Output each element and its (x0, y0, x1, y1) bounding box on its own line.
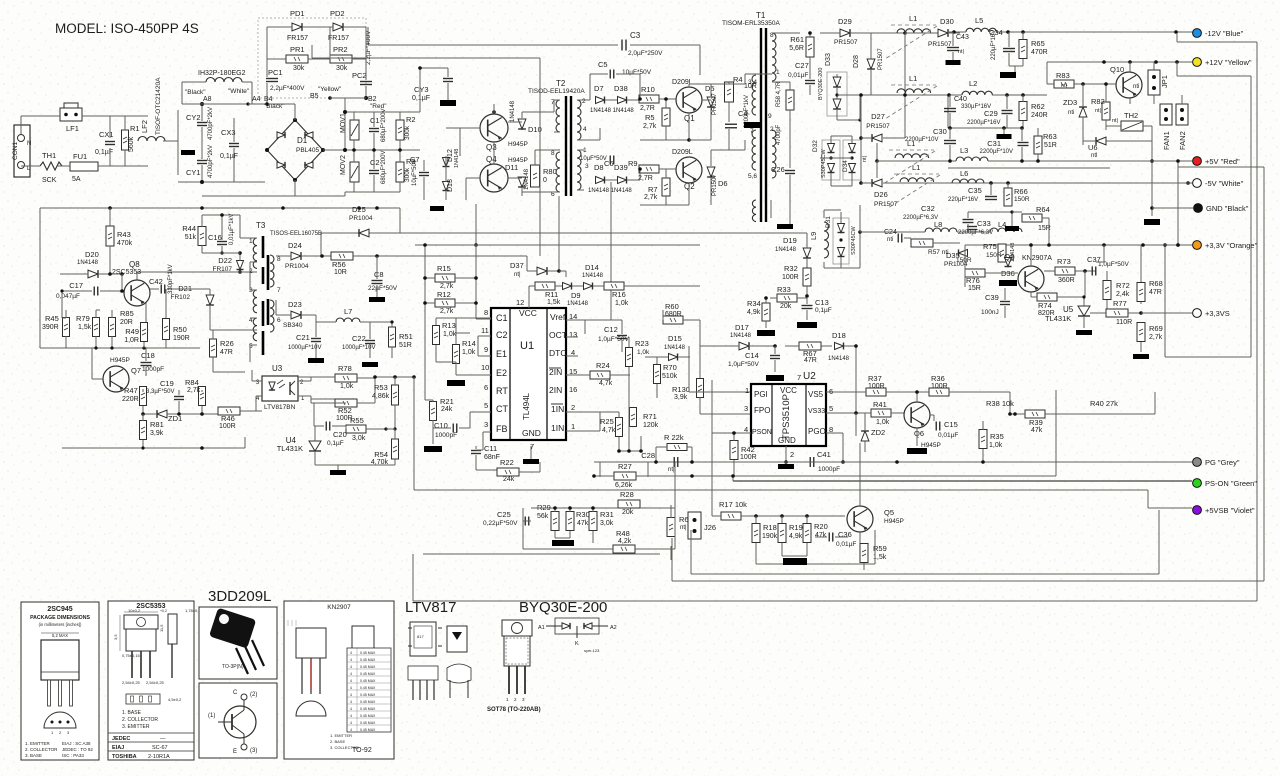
svg-text:2200µF*16V: 2200µF*16V (967, 120, 1000, 126)
svg-text:D12: D12 (447, 149, 454, 162)
svg-text:KN2907A: KN2907A (1022, 255, 1052, 262)
svg-text:R23: R23 (635, 339, 649, 348)
svg-text:VCC: VCC (519, 308, 537, 318)
svg-text:Vref: Vref (550, 312, 566, 322)
svg-text:2,4k: 2,4k (1116, 291, 1130, 298)
svg-text:L2: L2 (969, 79, 977, 88)
svg-text:R22: R22 (500, 458, 514, 467)
svg-text:nt|: nt| (668, 467, 675, 473)
svg-text:EIAJ : SC A38: EIAJ : SC A38 (62, 741, 91, 746)
svg-text:SCK: SCK (42, 177, 57, 184)
svg-text:0,1µF: 0,1µF (220, 153, 238, 160)
svg-text:ntl: ntl (1091, 153, 1097, 159)
svg-text:E1: E1 (496, 349, 507, 359)
svg-text:2,7R: 2,7R (640, 105, 655, 112)
svg-text:D1: D1 (297, 136, 308, 145)
svg-text:L8: L8 (934, 220, 942, 229)
svg-text:680µF*200V: 680µF*200V (381, 151, 387, 184)
svg-text:510k: 510k (662, 373, 678, 380)
svg-text:7: 7 (750, 128, 754, 135)
svg-text:PC1: PC1 (268, 68, 283, 77)
svg-text:H945P: H945P (508, 141, 528, 148)
svg-text:JEDEC: JEDEC (112, 736, 130, 742)
svg-text:220µF*16V: 220µF*16V (948, 197, 978, 203)
svg-text:47k: 47k (815, 532, 827, 539)
svg-text:150R: 150R (1014, 196, 1030, 203)
svg-text:0.45 MAX: 0.45 MAX (360, 700, 376, 704)
svg-text:C8: C8 (374, 270, 384, 279)
svg-text:+3,3VS: +3,3VS (1205, 309, 1230, 318)
svg-text:R60: R60 (665, 302, 679, 311)
svg-text:H945P: H945P (921, 442, 941, 449)
svg-text:0,01µF*1kV: 0,01µF*1kV (229, 214, 235, 245)
svg-text:1N4148: 1N4148 (582, 273, 604, 279)
svg-text:A4: A4 (252, 96, 261, 103)
svg-text:Q5: Q5 (884, 508, 894, 517)
svg-text:R14: R14 (462, 339, 476, 348)
svg-text:D11: D11 (505, 163, 518, 172)
svg-text:sym-123: sym-123 (584, 648, 600, 653)
svg-text:2,7k: 2,7k (440, 308, 454, 315)
svg-text:SB340: SB340 (283, 322, 303, 329)
svg-text:R1: R1 (130, 124, 140, 133)
svg-text:22µF*50V: 22µF*50V (368, 285, 398, 292)
svg-text:2SC945: 2SC945 (47, 606, 72, 613)
svg-text:13: 13 (569, 330, 577, 339)
svg-text:R73: R73 (1057, 257, 1071, 266)
svg-text:100R: 100R (740, 454, 757, 461)
svg-text:—: — (160, 736, 166, 742)
svg-text:3: 3 (744, 404, 748, 413)
svg-text:10R: 10R (334, 269, 347, 276)
svg-text:R26: R26 (220, 339, 234, 348)
svg-text:B4: B4 (264, 96, 273, 103)
svg-text:1: 1 (776, 69, 780, 76)
svg-text:0.45 MAX: 0.45 MAX (360, 672, 376, 676)
svg-text:360R: 360R (1058, 277, 1075, 284)
svg-text:R79: R79 (76, 314, 90, 323)
svg-text:R43: R43 (117, 230, 131, 239)
svg-text:SC-67: SC-67 (152, 745, 168, 751)
svg-text:+3,3V "Orange": +3,3V "Orange" (1205, 241, 1258, 250)
svg-text:nt|: nt| (514, 272, 521, 278)
svg-text:1. EMITTER: 1. EMITTER (25, 741, 51, 746)
svg-text:H945P: H945P (884, 518, 904, 525)
svg-text:PC2: PC2 (352, 71, 367, 80)
svg-text:"Black": "Black" (185, 89, 206, 96)
svg-text:VCC: VCC (780, 386, 797, 395)
svg-text:6: 6 (484, 383, 488, 392)
svg-text:C3: C3 (630, 31, 641, 40)
svg-text:RT: RT (496, 386, 508, 396)
svg-text:C22: C22 (352, 334, 366, 343)
svg-text:11,5: 11,5 (159, 624, 164, 632)
svg-text:R 22k: R 22k (664, 433, 684, 442)
svg-text:100R: 100R (931, 383, 948, 390)
svg-text:R46: R46 (221, 414, 235, 423)
svg-text:4700pF*2kV: 4700pF*2kV (208, 145, 214, 178)
svg-text:0,047µF: 0,047µF (56, 293, 80, 300)
svg-text:"Yellow": "Yellow" (318, 86, 342, 93)
svg-text:190R: 190R (173, 335, 190, 342)
svg-text:68nF: 68nF (484, 454, 500, 461)
svg-text:3,9k: 3,9k (674, 394, 688, 401)
svg-text:R7: R7 (648, 185, 658, 194)
svg-text:2: 2 (582, 98, 586, 105)
svg-text:4,9k: 4,9k (747, 309, 761, 316)
svg-text:R66: R66 (1014, 187, 1028, 196)
svg-text:R30: R30 (576, 510, 590, 519)
svg-text:190k: 190k (762, 533, 778, 540)
svg-text:R17 10k: R17 10k (719, 500, 747, 509)
svg-text:51R: 51R (1044, 142, 1057, 149)
svg-text:1000pF: 1000pF (435, 432, 457, 439)
svg-text:D26: D26 (874, 190, 888, 199)
svg-text:15R: 15R (968, 285, 981, 292)
svg-text:Q1: Q1 (684, 114, 695, 123)
svg-text:R85: R85 (120, 309, 134, 318)
svg-text:1N4148: 1N4148 (454, 149, 460, 168)
svg-text:R82: R82 (1091, 97, 1105, 106)
svg-text:R83: R83 (1056, 71, 1070, 80)
svg-text:R20: R20 (814, 522, 828, 531)
svg-text:1000pF: 1000pF (142, 366, 164, 373)
svg-text:R42: R42 (741, 445, 755, 454)
svg-text:0: 0 (543, 177, 547, 184)
svg-text:1: 1 (249, 238, 253, 245)
svg-text:R37: R37 (868, 374, 882, 383)
svg-text:R69: R69 (1149, 324, 1163, 333)
svg-text:L7: L7 (344, 307, 352, 316)
svg-text:0,01µF: 0,01µF (836, 541, 856, 548)
svg-text:Q6: Q6 (914, 429, 924, 438)
svg-text:4,5±0,2: 4,5±0,2 (168, 697, 182, 702)
svg-text:D29: D29 (838, 17, 852, 26)
svg-text:7: 7 (277, 287, 281, 294)
svg-text:110R: 110R (1116, 319, 1132, 326)
svg-text:100R: 100R (868, 383, 885, 390)
svg-text:+0,2: +0,2 (160, 609, 167, 613)
svg-text:4,7k: 4,7k (599, 380, 613, 387)
svg-text:GND "Black": GND "Black" (1206, 204, 1249, 213)
svg-text:560k: 560k (128, 136, 135, 152)
svg-text:Q9: Q9 (1004, 253, 1015, 262)
svg-text:1,0µF*50V: 1,0µF*50V (598, 336, 630, 343)
svg-text:220R: 220R (122, 396, 139, 403)
svg-text:R18: R18 (763, 523, 777, 532)
svg-text:H945P: H945P (110, 357, 130, 364)
svg-text:0,1µF: 0,1µF (815, 307, 832, 314)
svg-text:4,2k: 4,2k (618, 538, 632, 545)
svg-text:C28: C28 (641, 451, 655, 460)
svg-text:R70: R70 (663, 363, 677, 372)
svg-text:E: E (233, 749, 237, 755)
svg-text:R63: R63 (1043, 132, 1057, 141)
svg-text:DTC: DTC (549, 348, 566, 358)
svg-text:30k: 30k (293, 65, 305, 72)
svg-text:D25: D25 (352, 205, 366, 214)
svg-text:C17: C17 (69, 281, 83, 290)
svg-text:J26: J26 (704, 523, 716, 532)
svg-text:0.45 MAX: 0.45 MAX (360, 693, 376, 697)
svg-text:0,01µF: 0,01µF (788, 72, 808, 79)
svg-text:B5: B5 (310, 93, 319, 100)
svg-text:R11: R11 (545, 290, 558, 299)
svg-text:D15: D15 (668, 334, 682, 343)
svg-text:FR157: FR157 (328, 35, 349, 42)
svg-text:C27: C27 (795, 61, 809, 70)
svg-text:30k: 30k (336, 65, 348, 72)
svg-text:R44: R44 (182, 224, 196, 233)
svg-text:D19: D19 (783, 236, 797, 245)
svg-text:1,0k: 1,0k (462, 349, 476, 356)
svg-text:1,0k: 1,0k (615, 300, 629, 307)
svg-text:R64: R64 (1036, 205, 1050, 214)
svg-text:8: 8 (484, 308, 488, 317)
svg-text:Q10: Q10 (1110, 65, 1124, 74)
svg-text:D31: D31 (825, 216, 832, 228)
svg-text:C26: C26 (771, 165, 785, 174)
svg-text:PSON: PSON (752, 429, 772, 436)
svg-text:U6: U6 (1088, 143, 1098, 152)
svg-text:R72: R72 (1116, 281, 1130, 290)
svg-text:S30P45CW: S30P45CW (851, 225, 857, 255)
svg-text:-5V "White": -5V "White" (1205, 179, 1244, 188)
svg-text:1N4148: 1N4148 (77, 260, 99, 266)
svg-text:L1: L1 (912, 163, 920, 172)
svg-text:390R: 390R (42, 324, 59, 331)
svg-text:6,26k: 6,26k (615, 482, 633, 489)
svg-text:KN2907: KN2907 (327, 604, 351, 611)
svg-text:JP1: JP1 (1160, 75, 1169, 88)
svg-text:L5: L5 (975, 16, 983, 25)
svg-text:R56: R56 (332, 260, 346, 269)
svg-text:R51: R51 (399, 332, 413, 341)
svg-text:C15: C15 (944, 420, 958, 429)
svg-text:TH1: TH1 (42, 151, 56, 160)
svg-text:3,0k: 3,0k (600, 520, 614, 527)
svg-text:0,75±0,15: 0,75±0,15 (122, 653, 141, 658)
svg-text:5: 5 (484, 401, 488, 410)
svg-text:PR1507: PR1507 (712, 93, 718, 115)
svg-text:TL494L: TL494L (522, 392, 531, 420)
svg-text:2IN: 2IN (549, 367, 562, 377)
svg-text:2,7k: 2,7k (643, 123, 657, 130)
svg-text:L6: L6 (960, 169, 968, 178)
svg-text:D18: D18 (832, 331, 846, 340)
svg-text:TISOS-EEL16075B: TISOS-EEL16075B (270, 231, 322, 237)
svg-text:A8: A8 (203, 96, 212, 103)
svg-text:C19: C19 (160, 379, 174, 388)
svg-text:PR2: PR2 (333, 45, 348, 54)
svg-text:10µF*50V: 10µF*50V (580, 156, 607, 162)
svg-text:24k: 24k (503, 476, 515, 483)
svg-text:5A: 5A (72, 176, 81, 183)
svg-text:JEDEC : TO 92: JEDEC : TO 92 (62, 747, 93, 752)
svg-text:C39: C39 (985, 293, 999, 302)
svg-text:47R: 47R (220, 349, 233, 356)
svg-text:R32: R32 (784, 264, 798, 273)
svg-text:100nJ: 100nJ (981, 309, 999, 316)
svg-text:R41: R41 (873, 400, 887, 409)
svg-text:R80: R80 (543, 167, 557, 176)
svg-text:(in millimeters [inches]): (in millimeters [inches]) (39, 622, 82, 627)
svg-text:D23: D23 (288, 300, 302, 309)
svg-text:150R: 150R (986, 252, 1002, 259)
svg-text:R55: R55 (350, 416, 364, 425)
svg-text:1N4148: 1N4148 (730, 333, 752, 339)
svg-text:R35: R35 (990, 432, 1004, 441)
svg-text:C1: C1 (496, 313, 508, 323)
svg-text:10µF*50V: 10µF*50V (412, 159, 418, 186)
svg-text:4: 4 (350, 700, 352, 704)
svg-text:L3: L3 (960, 146, 968, 155)
svg-text:LTV817: LTV817 (405, 599, 456, 616)
svg-text:C2: C2 (370, 158, 380, 167)
svg-text:CY1: CY1 (186, 168, 201, 177)
svg-text:1N4148: 1N4148 (524, 168, 530, 190)
svg-text:PR1507: PR1507 (712, 174, 718, 196)
svg-text:R25: R25 (600, 417, 614, 426)
svg-text:PR1004: PR1004 (285, 263, 309, 270)
svg-text:5,2 MAX: 5,2 MAX (52, 633, 68, 638)
svg-text:PBL405: PBL405 (296, 147, 320, 154)
svg-text:Q4: Q4 (486, 155, 497, 164)
svg-text:T3: T3 (256, 221, 266, 230)
svg-text:5: 5 (829, 404, 833, 413)
svg-text:7: 7 (797, 373, 801, 382)
svg-text:330pF*1kV: 330pF*1kV (168, 264, 174, 294)
svg-text:R4: R4 (733, 75, 743, 84)
svg-text:C2: C2 (496, 330, 508, 340)
svg-text:C31: C31 (987, 139, 1001, 148)
svg-text:3,0k: 3,0k (352, 435, 366, 442)
svg-text:C16: C16 (208, 233, 222, 242)
svg-text:0.45 MAX: 0.45 MAX (360, 728, 376, 732)
svg-text:TO-92: TO-92 (352, 747, 372, 754)
svg-text:(3): (3) (250, 748, 257, 754)
svg-text:R58 4,7R: R58 4,7R (776, 81, 782, 107)
svg-text:R76: R76 (966, 276, 980, 285)
svg-text:CT: CT (496, 404, 508, 414)
svg-text:FU1: FU1 (73, 152, 87, 161)
svg-text:PGI: PGI (754, 390, 768, 399)
svg-text:U1: U1 (520, 340, 534, 352)
svg-text:C41: C41 (817, 450, 831, 459)
svg-text:6: 6 (277, 317, 281, 324)
svg-text:L1: L1 (909, 14, 917, 23)
svg-text:ZD2: ZD2 (871, 428, 885, 437)
svg-text:+5V "Red": +5V "Red" (1205, 157, 1240, 166)
svg-text:4,7k: 4,7k (602, 427, 616, 434)
svg-text:PACKAGE DIMENSIONS: PACKAGE DIMENSIONS (30, 615, 90, 621)
svg-text:3,3µF*50V: 3,3µF*50V (146, 389, 174, 395)
svg-text:680R: 680R (665, 311, 682, 318)
svg-text:FAN1: FAN1 (1162, 131, 1171, 150)
svg-text:D33: D33 (825, 53, 832, 66)
svg-text:3,9k: 3,9k (150, 430, 164, 437)
svg-text:300k: 300k (404, 167, 411, 182)
svg-text:C30: C30 (933, 127, 947, 136)
svg-text:4: 4 (350, 707, 352, 711)
svg-text:3,5: 3,5 (113, 634, 118, 640)
svg-text:9: 9 (768, 113, 772, 120)
svg-text:2IN: 2IN (549, 385, 562, 395)
svg-text:R50: R50 (173, 325, 187, 334)
svg-text:LTV817BN: LTV817BN (264, 404, 296, 411)
svg-text:ISC : PA33: ISC : PA33 (62, 753, 84, 758)
svg-text:2,7k: 2,7k (1149, 334, 1163, 341)
svg-text:20k: 20k (622, 509, 634, 516)
svg-text:1N4148: 1N4148 (567, 301, 589, 307)
svg-text:C36: C36 (838, 530, 852, 539)
svg-text:2. COLLECTOR: 2. COLLECTOR (25, 747, 58, 752)
svg-text:R33: R33 (777, 285, 791, 294)
svg-text:2-10R1A: 2-10R1A (148, 754, 170, 760)
svg-text:R21: R21 (440, 397, 454, 406)
svg-text:3. BASE: 3. BASE (25, 753, 42, 758)
svg-text:0.45 MAX: 0.45 MAX (360, 651, 376, 655)
svg-text:2: 2 (770, 126, 774, 133)
svg-text:1N4148: 1N4148 (664, 345, 686, 351)
svg-text:TL431K: TL431K (1045, 314, 1071, 323)
svg-text:100R: 100R (219, 423, 236, 430)
svg-text:9: 9 (484, 345, 488, 354)
svg-text:8: 8 (551, 150, 555, 157)
svg-text:2200µF*10V: 2200µF*10V (980, 149, 1013, 155)
svg-text:4: 4 (350, 714, 352, 718)
svg-text:PD1: PD1 (290, 9, 305, 18)
svg-text:D13: D13 (447, 179, 454, 192)
svg-text:CY2: CY2 (186, 113, 201, 122)
svg-text:4: 4 (583, 126, 587, 133)
svg-text:MODEL: ISO-450PP 4S: MODEL: ISO-450PP 4S (55, 21, 199, 36)
svg-text:FB: FB (496, 424, 508, 434)
svg-text:4: 4 (350, 728, 352, 732)
svg-text:R68: R68 (1149, 279, 1163, 288)
svg-text:PG "Grey": PG "Grey" (1205, 458, 1240, 467)
svg-text:R27: R27 (618, 462, 632, 471)
svg-text:2SC5353: 2SC5353 (112, 269, 141, 276)
svg-text:C20: C20 (333, 430, 347, 439)
svg-text:D8: D8 (594, 163, 604, 172)
svg-text:R15: R15 (437, 264, 451, 273)
svg-text:2,7k: 2,7k (187, 387, 201, 394)
svg-text:R31: R31 (600, 510, 614, 519)
svg-text:0,1µF: 0,1µF (412, 95, 430, 102)
svg-text:R78: R78 (338, 364, 352, 373)
svg-text:BYQ30E-200: BYQ30E-200 (519, 599, 607, 616)
svg-text:nt|: nt| (1061, 83, 1067, 89)
svg-text:LF2: LF2 (140, 120, 149, 133)
svg-text:12: 12 (516, 298, 524, 307)
svg-text:GND: GND (522, 428, 541, 438)
svg-text:Q8: Q8 (129, 260, 140, 269)
svg-text:nt|: nt| (1112, 118, 1118, 124)
svg-text:D20: D20 (85, 250, 99, 259)
svg-text:A1: A1 (538, 625, 545, 631)
svg-text:L9: L9 (809, 232, 818, 240)
svg-text:R65: R65 (1031, 39, 1045, 48)
svg-text:680µF*200V: 680µF*200V (381, 109, 387, 142)
svg-text:nt|: nt| (680, 525, 687, 531)
svg-text:56k: 56k (537, 513, 549, 520)
svg-text:nti: nti (887, 237, 893, 243)
svg-text:5,6R: 5,6R (789, 45, 804, 52)
svg-text:2200µF*6,3V: 2200µF*6,3V (958, 230, 993, 236)
svg-text:0,22µF*50V: 0,22µF*50V (483, 520, 518, 527)
svg-text:R75: R75 (983, 242, 997, 251)
